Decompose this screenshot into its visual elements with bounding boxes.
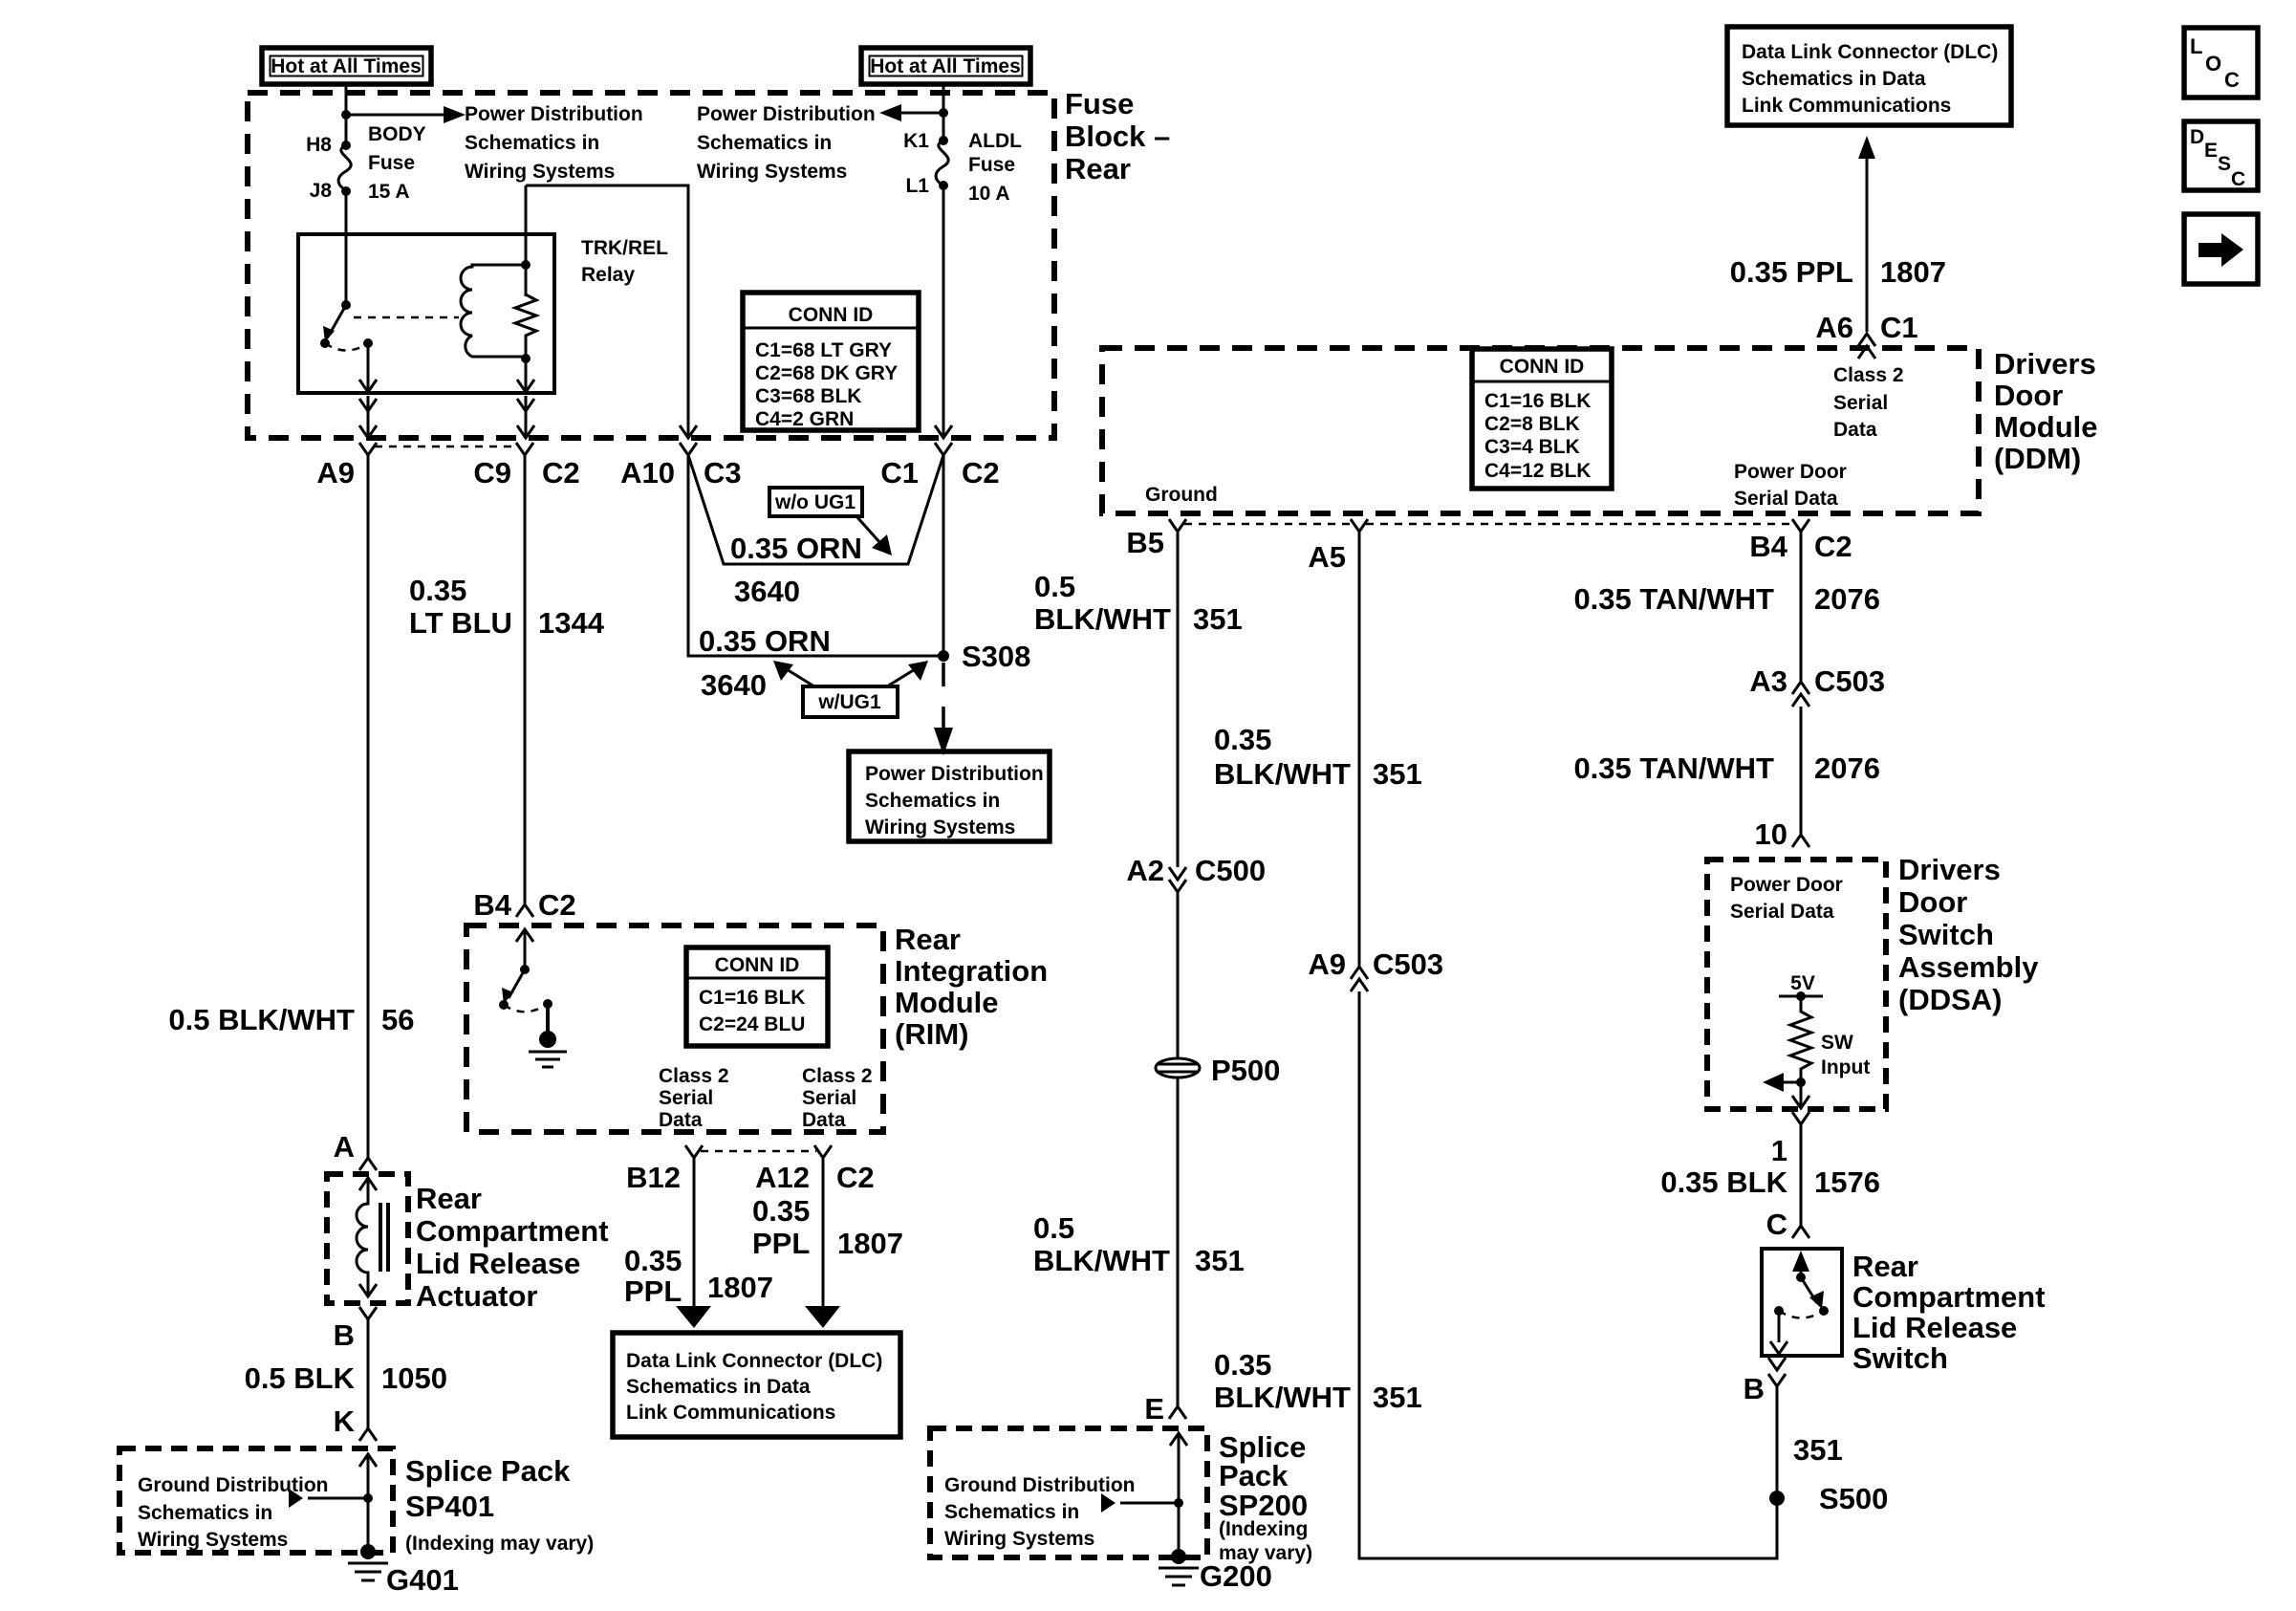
svg-text:C4=12 BLK: C4=12 BLK (1484, 460, 1591, 482)
svg-text:Power Distribution: Power Distribution (697, 103, 876, 125)
svg-text:Data Link Connector (DLC): Data Link Connector (DLC) (1742, 41, 1998, 63)
svg-text:H8: H8 (306, 134, 332, 156)
svg-text:Data Link Connector (DLC): Data Link Connector (DLC) (626, 1350, 882, 1372)
svg-text:A9: A9 (316, 456, 355, 490)
svg-text:Ground Distribution: Ground Distribution (138, 1474, 328, 1496)
svg-text:Class 2: Class 2 (802, 1065, 873, 1087)
svg-text:0.35: 0.35 (409, 574, 466, 607)
svg-text:C: C (1766, 1208, 1787, 1241)
svg-text:S500: S500 (1819, 1482, 1888, 1515)
svg-text:B: B (334, 1318, 355, 1352)
svg-text:Fuse: Fuse (368, 152, 415, 174)
svg-text:Wiring Systems: Wiring Systems (865, 816, 1015, 838)
svg-text:C500: C500 (1195, 854, 1266, 887)
svg-text:Serial: Serial (1833, 392, 1888, 414)
svg-text:B5: B5 (1126, 526, 1164, 559)
svg-text:Link Communications: Link Communications (1742, 95, 1951, 117)
svg-text:PPL: PPL (752, 1227, 810, 1260)
svg-text:C3=4 BLK: C3=4 BLK (1484, 436, 1580, 458)
svg-text:Schematics in Data: Schematics in Data (626, 1376, 811, 1398)
svg-text:1050: 1050 (381, 1361, 447, 1395)
svg-text:SP401: SP401 (405, 1490, 494, 1523)
svg-text:56: 56 (381, 1003, 414, 1036)
svg-text:351: 351 (1373, 757, 1422, 791)
svg-text:Power Distribution: Power Distribution (865, 763, 1044, 785)
svg-text:Serial Data: Serial Data (1730, 901, 1834, 923)
svg-text:Schematics in Data: Schematics in Data (1742, 68, 1926, 90)
svg-text:0.35 BLK: 0.35 BLK (1660, 1165, 1787, 1199)
svg-text:0.35 PPL: 0.35 PPL (1730, 255, 1853, 289)
svg-text:C2: C2 (1814, 530, 1852, 563)
svg-text:C2=8 BLK: C2=8 BLK (1484, 413, 1580, 435)
svg-text:Schematics in: Schematics in (944, 1501, 1079, 1523)
svg-text:Pack: Pack (1219, 1459, 1289, 1492)
svg-text:Hot at All Times: Hot at All Times (870, 55, 1021, 77)
svg-text:Relay: Relay (581, 264, 635, 286)
svg-text:Door: Door (1898, 885, 1967, 919)
svg-text:B4: B4 (1749, 530, 1787, 563)
svg-text:Rear: Rear (1852, 1250, 1918, 1283)
svg-text:Wiring Systems: Wiring Systems (697, 161, 847, 183)
svg-text:0.5: 0.5 (1033, 1211, 1074, 1245)
svg-text:P500: P500 (1211, 1054, 1280, 1087)
svg-text:10 A: 10 A (968, 183, 1010, 205)
svg-text:A2: A2 (1126, 854, 1164, 887)
svg-text:C1=16 BLK: C1=16 BLK (699, 987, 805, 1009)
svg-text:Serial Data: Serial Data (1734, 488, 1838, 510)
svg-text:C: C (2231, 168, 2245, 190)
svg-text:Compartment: Compartment (1852, 1280, 2046, 1314)
svg-text:(RIM): (RIM) (895, 1017, 968, 1051)
svg-text:BLK/WHT: BLK/WHT (1033, 1244, 1170, 1277)
svg-text:(DDM): (DDM) (1994, 442, 2081, 475)
svg-text:BLK/WHT: BLK/WHT (1034, 602, 1171, 636)
svg-text:(DDSA): (DDSA) (1898, 983, 2003, 1016)
svg-text:CONN ID: CONN ID (1500, 356, 1585, 378)
svg-text:Block –: Block – (1065, 120, 1170, 153)
svg-text:C1: C1 (1880, 311, 1918, 344)
svg-text:Link Communications: Link Communications (626, 1402, 835, 1424)
svg-text:w/UG1: w/UG1 (817, 691, 881, 713)
svg-text:351: 351 (1193, 602, 1243, 636)
svg-text:Integration: Integration (895, 954, 1048, 988)
svg-text:Fuse: Fuse (968, 154, 1015, 176)
svg-text:Data: Data (802, 1109, 846, 1131)
svg-text:3640: 3640 (734, 575, 800, 608)
svg-text:Ground: Ground (1145, 484, 1218, 506)
svg-text:C3=68 BLK: C3=68 BLK (755, 385, 861, 407)
svg-text:0.5: 0.5 (1034, 570, 1075, 603)
svg-text:Module: Module (1994, 410, 2098, 444)
svg-text:A10: A10 (620, 456, 675, 490)
svg-text:2076: 2076 (1814, 582, 1880, 616)
svg-text:0.35 ORN: 0.35 ORN (730, 532, 862, 565)
svg-text:PPL: PPL (624, 1274, 682, 1308)
svg-text:1807: 1807 (837, 1227, 903, 1260)
svg-text:Switch: Switch (1852, 1341, 1948, 1375)
svg-text:2076: 2076 (1814, 751, 1880, 785)
svg-text:C9: C9 (473, 456, 511, 490)
svg-text:1: 1 (1771, 1134, 1787, 1167)
svg-text:Lid Release: Lid Release (416, 1247, 580, 1280)
svg-text:(Indexing: (Indexing (1219, 1518, 1308, 1540)
svg-text:Input: Input (1821, 1056, 1870, 1078)
svg-text:Compartment: Compartment (416, 1214, 609, 1248)
svg-text:3640: 3640 (701, 668, 767, 702)
svg-text:15 A: 15 A (368, 181, 410, 203)
svg-text:Serial: Serial (659, 1087, 713, 1109)
svg-text:S: S (2218, 153, 2231, 175)
svg-text:C2: C2 (962, 456, 1000, 490)
svg-text:0.35: 0.35 (1214, 1348, 1271, 1382)
svg-text:O: O (2205, 52, 2221, 76)
svg-text:BLK/WHT: BLK/WHT (1214, 757, 1351, 791)
svg-text:w/o UG1: w/o UG1 (774, 491, 856, 513)
svg-text:Schematics in: Schematics in (465, 132, 599, 154)
svg-text:Wiring Systems: Wiring Systems (138, 1529, 288, 1551)
svg-text:0.35: 0.35 (624, 1244, 682, 1277)
svg-text:C3: C3 (704, 456, 742, 490)
svg-text:351: 351 (1793, 1433, 1843, 1467)
svg-text:SP200: SP200 (1219, 1489, 1308, 1522)
svg-text:Data: Data (1833, 419, 1877, 441)
svg-text:0.5 BLK: 0.5 BLK (245, 1361, 356, 1395)
svg-text:C503: C503 (1814, 664, 1885, 698)
svg-text:Fuse: Fuse (1065, 87, 1134, 120)
svg-text:Power Door: Power Door (1734, 461, 1847, 483)
svg-text:(Indexing may vary): (Indexing may vary) (405, 1533, 594, 1555)
svg-text:0.35: 0.35 (752, 1194, 810, 1228)
svg-text:Switch: Switch (1898, 918, 1994, 951)
svg-text:Rear: Rear (1065, 152, 1131, 185)
svg-text:Schematics in: Schematics in (865, 790, 1000, 812)
svg-text:0.35 ORN: 0.35 ORN (699, 624, 831, 658)
svg-text:0.35 TAN/WHT: 0.35 TAN/WHT (1573, 751, 1774, 785)
svg-text:C2=24 BLU: C2=24 BLU (699, 1013, 805, 1035)
svg-text:ALDL: ALDL (968, 130, 1022, 152)
svg-text:Data: Data (659, 1109, 703, 1131)
svg-text:A12: A12 (755, 1161, 810, 1194)
svg-text:Class 2: Class 2 (1833, 364, 1904, 386)
svg-text:L: L (2190, 34, 2202, 58)
svg-text:Rear: Rear (895, 923, 961, 956)
svg-text:Splice Pack: Splice Pack (405, 1454, 571, 1488)
svg-text:1807: 1807 (1880, 255, 1946, 289)
svg-text:C1=16 BLK: C1=16 BLK (1484, 390, 1591, 412)
svg-text:B4: B4 (473, 888, 511, 922)
svg-text:Module: Module (895, 986, 999, 1019)
svg-text:C2: C2 (836, 1161, 875, 1194)
svg-text:C1: C1 (880, 456, 919, 490)
svg-text:SW: SW (1821, 1032, 1853, 1054)
svg-text:may vary): may vary) (1219, 1542, 1312, 1564)
svg-text:E: E (2204, 140, 2218, 162)
svg-text:Lid Release: Lid Release (1852, 1311, 2017, 1344)
svg-text:Power Door: Power Door (1730, 874, 1843, 896)
svg-text:A6: A6 (1815, 311, 1853, 344)
svg-text:C503: C503 (1373, 947, 1443, 981)
svg-text:Actuator: Actuator (416, 1279, 537, 1313)
svg-text:C4=2 GRN: C4=2 GRN (755, 408, 854, 430)
svg-text:351: 351 (1195, 1244, 1245, 1277)
svg-text:E: E (1144, 1392, 1164, 1426)
svg-text:D: D (2190, 126, 2204, 148)
svg-text:K1: K1 (903, 130, 929, 152)
svg-text:Serial: Serial (802, 1087, 856, 1109)
svg-text:Door: Door (1994, 379, 2063, 412)
svg-text:BLK/WHT: BLK/WHT (1214, 1381, 1351, 1414)
svg-text:C2: C2 (538, 888, 576, 922)
svg-text:LT BLU: LT BLU (409, 606, 512, 640)
svg-text:B12: B12 (626, 1161, 681, 1194)
svg-text:0.35 TAN/WHT: 0.35 TAN/WHT (1573, 582, 1774, 616)
svg-text:Drivers: Drivers (1994, 347, 2096, 381)
svg-text:Wiring Systems: Wiring Systems (944, 1528, 1094, 1550)
svg-text:J8: J8 (310, 180, 333, 202)
svg-text:G200: G200 (1200, 1559, 1272, 1593)
svg-text:A: A (334, 1130, 355, 1164)
svg-text:Rear: Rear (416, 1182, 482, 1215)
svg-text:L1: L1 (905, 175, 929, 197)
svg-text:A9: A9 (1308, 947, 1346, 981)
svg-text:Schematics in: Schematics in (138, 1502, 272, 1524)
svg-text:1807: 1807 (707, 1271, 773, 1304)
svg-text:C2=68 DK GRY: C2=68 DK GRY (755, 362, 898, 384)
svg-text:0.35: 0.35 (1214, 723, 1271, 756)
svg-text:Wiring Systems: Wiring Systems (465, 161, 615, 183)
svg-text:A3: A3 (1749, 664, 1787, 698)
svg-text:A5: A5 (1308, 540, 1346, 574)
svg-text:Hot at All Times: Hot at All Times (271, 55, 422, 77)
svg-text:G401: G401 (386, 1563, 459, 1597)
svg-text:TRK/REL: TRK/REL (581, 237, 668, 259)
svg-text:Schematics in: Schematics in (697, 132, 832, 154)
svg-text:1344: 1344 (538, 606, 605, 640)
svg-text:5V: 5V (1790, 972, 1815, 994)
svg-text:CONN ID: CONN ID (715, 954, 800, 976)
svg-text:K: K (334, 1404, 356, 1438)
svg-text:Drivers: Drivers (1898, 853, 2001, 886)
svg-text:BODY: BODY (368, 123, 426, 145)
svg-text:CONN ID: CONN ID (789, 304, 874, 326)
svg-text:C: C (2224, 68, 2240, 92)
svg-text:S308: S308 (962, 640, 1030, 673)
svg-text:Power Distribution: Power Distribution (465, 103, 643, 125)
svg-text:10: 10 (1755, 817, 1787, 851)
svg-text:Ground Distribution: Ground Distribution (944, 1474, 1135, 1496)
svg-text:351: 351 (1373, 1381, 1422, 1414)
svg-text:C2: C2 (542, 456, 580, 490)
svg-text:1576: 1576 (1814, 1165, 1880, 1199)
svg-text:B: B (1744, 1372, 1765, 1405)
svg-text:Assembly: Assembly (1898, 950, 2039, 984)
svg-text:C1=68 LT GRY: C1=68 LT GRY (755, 339, 892, 361)
svg-text:Class 2: Class 2 (659, 1065, 729, 1087)
svg-text:0.5 BLK/WHT: 0.5 BLK/WHT (168, 1003, 355, 1036)
